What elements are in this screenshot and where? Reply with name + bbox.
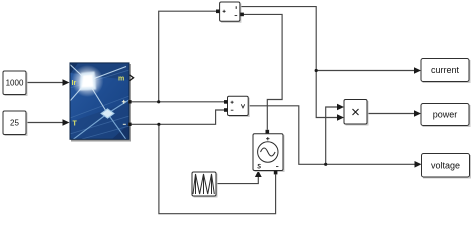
svg-text:power: power — [433, 110, 458, 120]
controlled voltage source block VS — [253, 134, 285, 172]
center diamond cell — [100, 108, 115, 119]
wire current measurement i output to current block and product input — [240, 7, 421, 121]
VM + terminal — [224, 100, 228, 104]
pin label + — [122, 100, 126, 104]
current measurement block CM — [220, 2, 242, 23]
wire 25 to T — [26, 119, 70, 126]
node current junction — [315, 69, 318, 72]
CM + terminal — [216, 10, 220, 14]
node voltage junction — [324, 163, 327, 166]
product block X — [344, 100, 369, 126]
wire voltage measurement v output to voltage block and product input — [248, 104, 421, 168]
output block current — [421, 59, 471, 84]
constant block 1000 — [3, 71, 28, 96]
node PV+ junction — [157, 100, 160, 103]
repeating sequence block — [192, 172, 218, 198]
constant block 25 — [3, 111, 28, 136]
flare rays — [70, 65, 126, 114]
VS - terminal — [274, 171, 278, 175]
PV array block U1 — [70, 62, 132, 141]
VS + terminal — [266, 130, 270, 134]
svg-text:m: m — [118, 76, 124, 83]
output block power — [421, 104, 471, 128]
VM - terminal — [224, 108, 228, 112]
diamond rays — [73, 100, 130, 140]
svg-text:1000: 1000 — [6, 79, 24, 88]
wire PV+ to voltage measurement + and up to current measurement + — [132, 11, 226, 102]
wire product output to power block — [367, 110, 421, 117]
voltage measurement block VM — [228, 96, 250, 117]
PV + terminal — [128, 100, 131, 103]
svg-text:Ir: Ir — [72, 80, 77, 87]
wire PV- to voltage measurement - and down to voltage source - — [132, 110, 276, 214]
wire current measurement - to voltage source + — [243, 14, 282, 129]
output block voltage — [422, 154, 472, 179]
CM - terminal — [240, 13, 244, 17]
wire repeating sequence to voltage source s input — [216, 171, 262, 184]
node PV- junction — [157, 123, 160, 126]
PV m output chevron — [130, 75, 134, 81]
svg-text:voltage: voltage — [431, 161, 460, 171]
flare glowing cell — [72, 65, 104, 97]
wire 1000 to Ir — [26, 79, 70, 86]
svg-text:T: T — [73, 121, 78, 128]
svg-text:25: 25 — [10, 119, 19, 128]
PV - terminal — [128, 123, 131, 126]
pin label - — [123, 123, 126, 125]
svg-text:current: current — [431, 65, 460, 75]
